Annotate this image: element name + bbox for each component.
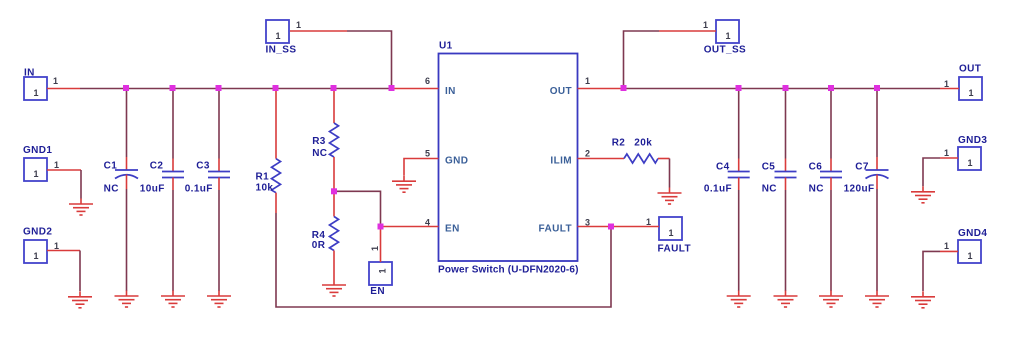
junction node on IN bus at C3 — [216, 85, 222, 91]
wire U1 pin3 stub — [578, 226, 612, 228]
svg-text:GND3: GND3 — [958, 135, 987, 146]
wire EN net from R3/R4 node to U1 EN — [334, 191, 381, 226]
svg-text:1: 1 — [33, 169, 38, 179]
wire U1 pin4 stub — [381, 226, 439, 228]
ground at R2 — [658, 188, 682, 205]
wire OUT net bus — [624, 88, 941, 90]
ground at C4 — [727, 291, 751, 308]
svg-text:1: 1 — [967, 158, 972, 168]
svg-text:1: 1 — [370, 246, 380, 251]
svg-text:IN_SS: IN_SS — [266, 45, 297, 56]
wire GND4 stub — [940, 250, 958, 252]
ground at C6 — [819, 291, 843, 308]
svg-text:C3: C3 — [196, 160, 210, 171]
port GND3 — [958, 135, 987, 170]
svg-text:ILIM: ILIM — [550, 156, 572, 167]
capacitor C5 — [762, 89, 797, 292]
junction node on IN bus at C2 — [170, 85, 176, 91]
ground at GND3 — [911, 186, 935, 203]
junction node on IN bus at IN_SS — [389, 85, 395, 91]
svg-text:C2: C2 — [150, 160, 164, 171]
wire OUT_SS stub — [659, 30, 716, 32]
svg-text:120uF: 120uF — [844, 184, 875, 195]
svg-text:1: 1 — [296, 20, 301, 30]
capacitor C6 — [809, 89, 842, 292]
svg-text:1: 1 — [967, 251, 972, 261]
svg-text:NC: NC — [312, 148, 327, 159]
wire U1 pin2 stub — [578, 158, 625, 160]
svg-text:R2: R2 — [612, 137, 626, 148]
junction node on IN bus at R3 — [331, 85, 337, 91]
svg-text:FAULT: FAULT — [658, 243, 691, 254]
capacitor C7 — [844, 89, 889, 292]
svg-text:EN: EN — [445, 224, 460, 235]
svg-text:1: 1 — [968, 88, 973, 98]
junction node on OUT bus at C5 — [783, 85, 789, 91]
ground at GND2 — [68, 291, 92, 308]
capacitor C3 — [185, 89, 230, 292]
svg-text:0.1uF: 0.1uF — [704, 184, 732, 195]
port OUT — [959, 63, 982, 100]
junction node on IN bus at C1 — [123, 85, 129, 91]
svg-text:10k: 10k — [256, 183, 274, 194]
svg-text:GND4: GND4 — [958, 228, 987, 239]
port FAULT — [658, 217, 691, 254]
ground at C3 — [207, 291, 231, 308]
svg-text:C5: C5 — [762, 161, 776, 172]
junction node FAULT — [608, 224, 614, 230]
svg-text:C6: C6 — [809, 161, 823, 172]
wire GND2 to ground — [47, 250, 80, 252]
wire IN_SS to IN bus — [347, 31, 392, 89]
svg-text:1: 1 — [944, 79, 949, 89]
wire OUT_SS to OUT bus — [624, 31, 660, 89]
resistor R3 — [312, 89, 338, 192]
resistor R4 — [312, 191, 339, 279]
svg-text:IN: IN — [24, 68, 35, 79]
svg-text:OUT: OUT — [959, 63, 981, 74]
svg-text:1: 1 — [585, 76, 590, 86]
svg-text:1: 1 — [54, 241, 59, 251]
svg-text:1: 1 — [53, 76, 58, 86]
svg-text:1: 1 — [944, 148, 949, 158]
wire port IN stub — [47, 88, 80, 90]
svg-text:1: 1 — [275, 31, 280, 41]
ground at C7 — [865, 291, 889, 308]
wire GND1 to ground — [47, 169, 81, 171]
svg-text:0.1uF: 0.1uF — [185, 184, 213, 195]
svg-text:5: 5 — [425, 149, 430, 159]
junction node on IN bus at R1 — [273, 85, 279, 91]
ground at R4 — [322, 280, 346, 297]
svg-text:Power Switch (U-DFN2020-6): Power Switch (U-DFN2020-6) — [438, 265, 579, 276]
junction node on OUT bus at C7 — [874, 85, 880, 91]
port EN — [369, 262, 392, 297]
junction node EN divider — [331, 188, 337, 194]
svg-text:R3: R3 — [312, 136, 326, 147]
svg-text:1: 1 — [703, 20, 708, 30]
wire IN net bus — [80, 88, 392, 90]
ground at U1 GND pin — [392, 176, 416, 193]
capacitor C2 — [140, 89, 184, 292]
svg-text:20k: 20k — [634, 137, 652, 148]
ground at GND4 — [911, 291, 935, 308]
svg-text:EN: EN — [370, 286, 385, 297]
svg-text:1: 1 — [33, 88, 38, 98]
svg-text:10uF: 10uF — [140, 184, 165, 195]
wire U1 pin1 stub — [578, 88, 624, 90]
port GND4 — [958, 228, 987, 263]
svg-text:GND1: GND1 — [23, 145, 52, 156]
svg-text:OUT_SS: OUT_SS — [704, 45, 746, 56]
ground at C5 — [774, 291, 798, 308]
port OUT_SS — [704, 20, 746, 56]
svg-text:1: 1 — [33, 251, 38, 261]
capacitor C1 — [104, 89, 138, 292]
wire GND3 to ground — [923, 158, 940, 186]
wire EN port to EN net — [380, 227, 382, 263]
junction node EN at port — [378, 224, 384, 230]
svg-text:1: 1 — [725, 31, 730, 41]
svg-text:6: 6 — [425, 76, 430, 86]
svg-text:OUT: OUT — [550, 86, 572, 97]
svg-text:NC: NC — [809, 184, 824, 195]
ground at C2 — [161, 291, 185, 308]
wire IN_SS stub — [290, 30, 347, 32]
ground at C1 — [115, 291, 139, 308]
resistor R2 — [612, 137, 670, 187]
wire GND4 to ground — [923, 251, 940, 291]
capacitor C4 — [704, 89, 750, 292]
port IN_SS — [266, 20, 297, 56]
svg-text:2: 2 — [585, 149, 590, 159]
wire GND3 stub — [940, 157, 958, 159]
ground at GND1 — [69, 199, 93, 216]
svg-text:1: 1 — [944, 241, 949, 251]
resistor R1 — [256, 89, 281, 214]
svg-text:1: 1 — [377, 268, 387, 273]
port GND2 — [23, 227, 52, 263]
svg-text:IN: IN — [445, 86, 456, 97]
wire U1 pin6 stub — [392, 88, 439, 90]
port IN — [24, 68, 47, 100]
junction node on OUT bus at C6 — [828, 85, 834, 91]
svg-text:1: 1 — [668, 228, 673, 238]
wire U1 pin5 stub — [404, 159, 439, 176]
svg-text:1: 1 — [646, 217, 651, 227]
svg-text:GND: GND — [445, 156, 468, 167]
svg-text:GND2: GND2 — [23, 227, 52, 238]
wire R1 bottom to FAULT net — [276, 213, 611, 307]
svg-text:C1: C1 — [104, 160, 118, 171]
svg-text:1: 1 — [54, 160, 59, 170]
svg-text:NC: NC — [762, 184, 777, 195]
port GND1 — [23, 145, 52, 181]
wire port OUT stub — [940, 88, 959, 90]
wire FAULT stub — [611, 226, 659, 228]
junction node on OUT bus at OUT_SS — [621, 85, 627, 91]
svg-text:C7: C7 — [855, 161, 869, 172]
svg-text:0R: 0R — [312, 240, 326, 251]
svg-text:NC: NC — [104, 184, 119, 195]
svg-text:R1: R1 — [256, 172, 270, 183]
svg-text:C4: C4 — [716, 161, 730, 172]
svg-text:FAULT: FAULT — [539, 224, 572, 235]
junction node on OUT bus at C4 — [736, 85, 742, 91]
svg-text:U1: U1 — [439, 41, 453, 52]
IC U1 power switch — [438, 41, 579, 276]
